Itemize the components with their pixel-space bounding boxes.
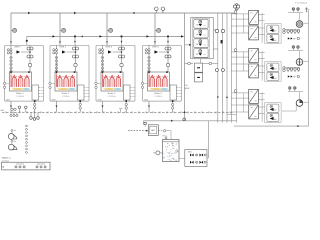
svg-text:1.7MWth: 1.7MWth [16,95,24,98]
svg-text:xxxx: xxxx [179,93,183,95]
svg-text:GH2: GH2 [52,99,56,101]
svg-text:xxxx: xxxx [41,96,45,98]
svg-text:GHX 3: GHX 3 [106,47,113,49]
svg-text:AH: AH [274,39,276,42]
svg-text:GHX 4: GHX 4 [152,47,159,49]
svg-text:xxxx: xxxx [86,93,90,95]
svg-text:x.x: x.x [204,54,206,56]
svg-text:Cxx: Cxx [13,130,16,132]
svg-text:AHU: AHU [188,151,192,154]
svg-text:x.x: x.x [204,25,206,27]
svg-text:AH: AH [274,77,276,80]
svg-text:xxxx: xxxx [179,96,183,98]
svg-text:xxxx: xxxx [132,96,136,98]
svg-text:AH: AH [274,68,276,71]
svg-text:xxxx: xxxx [86,87,90,89]
svg-text:AH: AH [274,109,276,112]
svg-text:GH4: GH4 [144,99,148,101]
svg-text:ASHP: ASHP [185,87,190,90]
svg-text:xxxx: xxxx [132,87,136,89]
svg-text:GH: GH [185,85,188,87]
svg-text:xxxx: xxxx [86,90,90,92]
svg-text:AHT: AHT [151,129,156,132]
svg-text:Boiler 1: Boiler 1 [16,92,24,95]
svg-text:GHX 2: GHX 2 [60,47,67,49]
svg-text:Boiler 3: Boiler 3 [108,92,116,95]
svg-text:wxyz abcd: wxyz abcd [16,164,24,166]
svg-text:x.x: x.x [204,35,206,37]
svg-text:xxxx: xxxx [132,93,136,95]
svg-text:GH: GH [1,110,5,112]
svg-text:NF: NF [293,39,295,41]
svg-text:wxyz abcd: wxyz abcd [37,164,45,166]
svg-text:T.Boiler C: T.Boiler C [2,156,12,159]
svg-text:xxxx: xxxx [41,90,45,92]
svg-text:1.7MWth: 1.7MWth [107,95,115,98]
svg-text:P: P [3,167,5,169]
svg-text:xxxx: xxxx [86,96,90,98]
svg-text:Boiler 2: Boiler 2 [62,92,70,95]
svg-text:1.7MWth: 1.7MWth [61,95,69,98]
svg-text:xxxx: xxxx [132,90,136,92]
svg-text:simulation: simulation [2,159,10,162]
svg-text:Cxx: Cxx [13,141,16,143]
svg-text:xxxx: xxxx [41,93,45,95]
svg-text:T wrf airplane: T wrf airplane [295,2,308,4]
svg-text:GH1: GH1 [6,99,10,101]
svg-text:1.7MWth: 1.7MWth [154,95,162,98]
svg-text:xxxx: xxxx [179,90,183,92]
svg-text:GH3: GH3 [98,99,102,101]
svg-text:xxxx: xxxx [179,87,183,89]
svg-text:AH: AH [274,30,276,33]
svg-text:Boiler 4: Boiler 4 [154,92,162,95]
svg-text:GHX 1: GHX 1 [14,47,21,49]
svg-text:xxxx: xxxx [41,87,45,89]
svg-text:AH: AH [274,118,276,121]
svg-text:NF: NF [293,77,295,79]
svg-text:x.x: x.x [204,44,206,46]
